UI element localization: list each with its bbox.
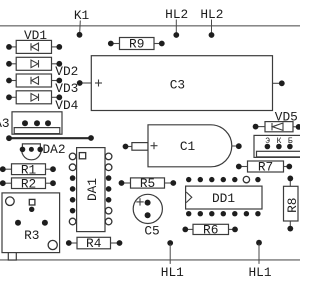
svg-text:DA2: DA2 xyxy=(42,142,65,157)
svg-text:DA1: DA1 xyxy=(85,178,100,201)
node HL2 (left) xyxy=(165,7,188,38)
resistor R7 xyxy=(236,160,292,175)
resistor R5 xyxy=(119,176,177,191)
transistor DA2 xyxy=(20,142,66,160)
resistor R8 xyxy=(284,176,300,232)
svg-text:DA3: DA3 xyxy=(0,116,10,131)
svg-text:R6: R6 xyxy=(203,223,218,238)
diode VD1 xyxy=(6,28,62,53)
board outline bottom edge xyxy=(0,259,300,261)
node K1 xyxy=(74,8,90,38)
capacitor C1 xyxy=(123,125,242,167)
svg-text:HL1: HL1 xyxy=(161,265,184,280)
svg-text:R5: R5 xyxy=(140,176,155,191)
resistor R9 xyxy=(108,37,165,52)
svg-text:VD2: VD2 xyxy=(55,64,78,79)
node HL1 (left) xyxy=(161,240,184,280)
svg-text:K1: K1 xyxy=(74,8,90,23)
capacitor C5 xyxy=(133,194,162,238)
svg-text:C3: C3 xyxy=(170,78,185,93)
node HL1 (right) xyxy=(248,240,271,280)
resistor R1 xyxy=(0,162,56,177)
transistor VT (Э К Б pads) xyxy=(254,135,302,157)
svg-text:HL1: HL1 xyxy=(248,265,271,280)
resistor R4 xyxy=(66,236,123,251)
svg-text:VD3: VD3 xyxy=(55,81,78,96)
svg-text:R7: R7 xyxy=(258,160,273,175)
svg-text:R2: R2 xyxy=(21,176,36,191)
svg-text:C1: C1 xyxy=(180,139,196,154)
diode VD4 xyxy=(6,91,79,113)
svg-text:R3: R3 xyxy=(24,228,39,243)
svg-text:R1: R1 xyxy=(21,162,37,177)
potentiometer R3 xyxy=(2,193,60,260)
svg-text:R4: R4 xyxy=(86,236,102,251)
svg-text:C5: C5 xyxy=(144,223,159,238)
diode VD3 xyxy=(6,74,78,96)
capacitor C3 xyxy=(77,56,285,111)
IC DD1 xyxy=(186,176,262,216)
resistor R2 xyxy=(0,176,56,191)
wire (thick bus) xyxy=(6,135,94,141)
IC DA3 xyxy=(0,112,62,134)
svg-text:VD4: VD4 xyxy=(55,98,78,113)
board outline top edge xyxy=(0,25,300,27)
resistor R6 xyxy=(182,223,238,238)
IC DA1 xyxy=(69,148,112,232)
diode VD5 xyxy=(253,109,302,132)
svg-text:R8: R8 xyxy=(285,198,300,213)
node HL2 (right) xyxy=(200,7,223,38)
diode VD2 xyxy=(6,57,78,79)
svg-text:R9: R9 xyxy=(129,37,144,52)
svg-text:DD1: DD1 xyxy=(212,191,235,206)
